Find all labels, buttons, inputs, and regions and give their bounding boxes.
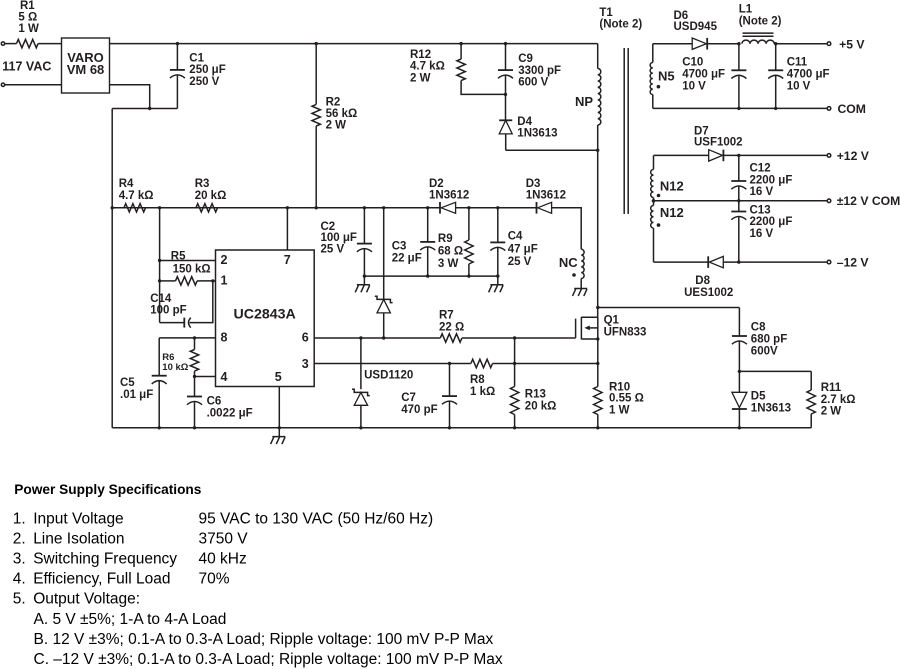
svg-text:R7: R7 — [439, 310, 454, 322]
node pin1 dot — [211, 279, 214, 282]
svg-text:D5: D5 — [751, 391, 766, 403]
svg-text:UC2843A: UC2843A — [234, 307, 296, 323]
winding N12 upper — [651, 155, 684, 200]
node mini rail C3 — [426, 274, 429, 277]
wire COM rail — [653, 107, 827, 109]
node drain snubber junction — [596, 306, 599, 309]
wire — [5, 84, 62, 86]
wire D2 anode to D3 cathode — [456, 207, 537, 209]
wire pin 6 output — [314, 337, 440, 339]
svg-text:20 kΩ: 20 kΩ — [195, 190, 227, 202]
node bottom rail C5 — [158, 426, 161, 429]
svg-text:R1: R1 — [20, 0, 35, 12]
ground pin 5 — [271, 428, 286, 444]
node pin2 junction — [158, 259, 161, 262]
node R6 top — [193, 336, 196, 339]
svg-text:C14: C14 — [150, 293, 172, 305]
svg-text:C10: C10 — [682, 57, 703, 69]
winding NC — [559, 249, 584, 278]
diode D6 — [674, 10, 739, 49]
node switch node junction — [596, 149, 599, 152]
svg-text:2 W: 2 W — [821, 406, 842, 418]
svg-text:Switching Frequency: Switching Frequency — [33, 551, 177, 568]
node N12 upper phase dot — [657, 194, 661, 198]
svg-text:1N3612: 1N3612 — [429, 190, 469, 202]
svg-text:40 kHz: 40 kHz — [199, 551, 247, 568]
wire negative rail left vertical — [111, 109, 113, 428]
svg-text:10 kΩ: 10 kΩ — [162, 362, 188, 373]
svg-text:0.55 Ω: 0.55 Ω — [609, 393, 644, 405]
svg-text:T1: T1 — [599, 7, 613, 19]
svg-text:USF1002: USF1002 — [694, 137, 743, 149]
IC U1 UC2843A — [216, 250, 315, 387]
svg-text:C3: C3 — [392, 241, 407, 253]
svg-text:25 V: 25 V — [321, 243, 345, 255]
capacitor C11 — [768, 44, 829, 109]
wire pin 7 vertical — [286, 208, 288, 250]
node Q1 source junction — [596, 362, 599, 365]
capacitor C2 — [321, 208, 372, 276]
wire VCC mid rail — [112, 207, 440, 209]
svg-text:D8: D8 — [695, 275, 710, 287]
svg-text:70%: 70% — [199, 571, 230, 588]
node C1 top — [176, 42, 179, 45]
node Z1 top — [382, 206, 385, 209]
svg-text:4.7 kΩ: 4.7 kΩ — [410, 61, 445, 73]
node R12 top — [459, 42, 462, 45]
svg-text:C5: C5 — [120, 377, 135, 389]
wire D4 anode to switch node — [506, 149, 598, 151]
wire — [38, 43, 61, 45]
wire pin 2 — [160, 260, 216, 262]
wire pin 5 — [278, 387, 280, 428]
node L1 left — [737, 42, 740, 45]
diode Z1 clamp — [375, 208, 393, 338]
node C4 top — [496, 206, 499, 209]
svg-text:C11: C11 — [787, 57, 808, 69]
wire source to CS — [597, 339, 599, 364]
svg-text:5: 5 — [275, 370, 282, 384]
svg-text:C1: C1 — [189, 52, 204, 64]
svg-text:.01 μF: .01 μF — [120, 389, 153, 401]
node bottom rail USD1120 — [359, 426, 362, 429]
svg-text:3750 V: 3750 V — [199, 530, 249, 547]
svg-text:22 μF: 22 μF — [392, 252, 422, 264]
wire C8 to R11 — [739, 370, 811, 372]
node neg rail / R4 — [111, 206, 114, 209]
svg-text:1.: 1. — [13, 510, 26, 527]
capacitor C12 — [731, 155, 792, 200]
svg-text:10 V: 10 V — [682, 80, 706, 92]
svg-text:C. –12 V ±3%; 0.1-A to 0.3-A L: C. –12 V ±3%; 0.1-A to 0.3-A Load; Rippl… — [34, 651, 503, 668]
wire snubber top — [598, 307, 740, 309]
node bottom rail pin5 — [278, 426, 281, 429]
svg-text:2.: 2. — [13, 530, 26, 547]
node N5 phase dot — [657, 85, 661, 89]
svg-text:R8: R8 — [470, 374, 485, 386]
node Z1 bottom — [382, 336, 385, 339]
transformer core T1 — [624, 48, 628, 214]
svg-text:R4: R4 — [119, 178, 134, 190]
svg-text:20 kΩ: 20 kΩ — [525, 401, 557, 413]
svg-text:R5: R5 — [171, 251, 186, 263]
diode D7 — [694, 126, 827, 162]
node VARO- junction — [148, 107, 151, 110]
diode USD1120 — [352, 338, 413, 428]
svg-text:R12: R12 — [410, 49, 431, 61]
wire VCC ground mini rail — [364, 275, 497, 277]
svg-text:4700 μF: 4700 μF — [682, 68, 725, 80]
node bottom rail R10 — [596, 426, 599, 429]
terminal +/-12V COM — [827, 194, 900, 208]
svg-text:COM: COM — [838, 102, 866, 116]
winding N5 secondary — [650, 44, 674, 109]
resistor R2 — [312, 44, 357, 208]
svg-text:1N3613: 1N3613 — [517, 128, 557, 140]
svg-text:16 V: 16 V — [750, 186, 774, 198]
svg-text:(Note 2): (Note 2) — [739, 15, 782, 27]
svg-text:56 kΩ: 56 kΩ — [326, 108, 358, 120]
node C12 top — [737, 154, 740, 157]
svg-text:USD1120: USD1120 — [364, 370, 413, 382]
node bottom rail C7 — [448, 426, 451, 429]
svg-text:4.7 kΩ: 4.7 kΩ — [119, 190, 154, 202]
svg-text:5.: 5. — [13, 591, 26, 608]
node R12 bottom / C9-D4 junction — [504, 93, 507, 96]
svg-text:.0022 μF: .0022 μF — [207, 408, 253, 420]
terminal +5V — [827, 37, 865, 51]
capacitor C14 — [150, 281, 213, 328]
svg-text:22 Ω: 22 Ω — [439, 322, 464, 334]
node L1 right — [774, 42, 777, 45]
svg-text:R2: R2 — [326, 96, 341, 108]
svg-text:Efficiency, Full Load: Efficiency, Full Load — [33, 571, 170, 588]
wire N12 top to D7 — [654, 154, 709, 156]
resistor R4 — [119, 178, 154, 212]
svg-text:D4: D4 — [517, 116, 532, 128]
resistor R12 — [410, 44, 506, 95]
svg-text:1 W: 1 W — [609, 405, 630, 417]
node D8/C13 junction — [737, 260, 740, 263]
node pin7 feed — [286, 206, 289, 209]
svg-text:117 VAC: 117 VAC — [2, 60, 51, 74]
node R4/R3 junction — [158, 206, 161, 209]
svg-text:16 V: 16 V — [750, 228, 774, 240]
svg-text:2 W: 2 W — [326, 120, 347, 132]
resistor R13 — [510, 364, 556, 428]
resistor R8 — [470, 359, 598, 398]
wire pin 8 — [159, 337, 215, 339]
capacitor C4 — [490, 208, 537, 276]
svg-text:A. 5 V ±5%; 1-A to 4-A Load: A. 5 V ±5%; 1-A to 4-A Load — [34, 611, 227, 628]
svg-text:C6: C6 — [207, 395, 222, 407]
svg-text:UFN833: UFN833 — [604, 326, 647, 338]
svg-text:8: 8 — [221, 330, 228, 344]
transistor Q1 — [576, 315, 647, 340]
svg-text:68 Ω: 68 Ω — [438, 246, 463, 258]
svg-text:R9: R9 — [438, 233, 453, 245]
capacitor C5 — [120, 338, 167, 428]
diode D3 — [526, 178, 566, 214]
node R9 top — [467, 206, 470, 209]
svg-text:2200 μF: 2200 μF — [750, 216, 793, 228]
svg-text:D3: D3 — [526, 178, 541, 190]
resistor R3 — [195, 178, 227, 212]
svg-text:R11: R11 — [821, 382, 842, 394]
svg-text:C13: C13 — [750, 204, 771, 216]
svg-text:3.: 3. — [13, 551, 26, 568]
svg-text:N12: N12 — [660, 205, 684, 220]
svg-text:5 Ω: 5 Ω — [18, 11, 37, 23]
resistor R11 — [807, 371, 856, 427]
svg-text:Output Voltage:: Output Voltage: — [33, 591, 140, 608]
diode D8 — [684, 256, 827, 299]
resistor R7 — [439, 310, 576, 343]
capacitor C1 — [170, 44, 226, 109]
node slope comp junction — [513, 336, 516, 339]
specifications text — [13, 482, 503, 668]
node COM C11 — [774, 107, 777, 110]
svg-text:25 V: 25 V — [508, 256, 532, 268]
wire — [5, 43, 17, 45]
capacitor C8 — [732, 308, 787, 372]
svg-text:600 V: 600 V — [518, 77, 548, 89]
wire pin 3 current sense — [314, 363, 471, 365]
node bottom rail R13 — [513, 426, 516, 429]
node NC phase dot — [572, 273, 576, 277]
capacitor C10 — [682, 44, 746, 109]
svg-text:C4: C4 — [508, 231, 523, 243]
svg-text:C12: C12 — [750, 163, 771, 175]
svg-text:(Note 2): (Note 2) — [599, 19, 642, 31]
svg-text:D7: D7 — [694, 126, 709, 138]
diode D5 — [732, 371, 791, 427]
node R13 top — [513, 362, 516, 365]
wire bottom return rail — [112, 427, 811, 429]
node center tap — [652, 199, 656, 203]
svg-text:+12 V: +12 V — [837, 149, 870, 163]
terminal COM — [827, 102, 866, 116]
svg-text:2.7 kΩ: 2.7 kΩ — [821, 394, 856, 406]
svg-text:470 pF: 470 pF — [401, 404, 437, 416]
node mini rail C2 — [363, 274, 366, 277]
svg-text:±12 V COM: ±12 V COM — [837, 194, 900, 208]
capacitor C13 — [731, 201, 792, 262]
svg-text:NC: NC — [559, 255, 578, 270]
svg-text:47 μF: 47 μF — [508, 243, 538, 255]
node pin1 column junction — [158, 279, 161, 282]
svg-text:C7: C7 — [401, 392, 416, 404]
node C2 top — [363, 206, 366, 209]
svg-text:250 V: 250 V — [189, 76, 219, 88]
node C9 top — [504, 42, 507, 45]
wire pin 4 — [195, 376, 216, 378]
svg-text:L1: L1 — [739, 3, 753, 15]
svg-text:UES1002: UES1002 — [684, 287, 733, 299]
svg-text:N12: N12 — [660, 178, 684, 193]
svg-text:100 μF: 100 μF — [321, 232, 357, 244]
wire N12 bottom to D8 — [654, 261, 709, 263]
svg-text:D2: D2 — [429, 178, 444, 190]
svg-text:150 kΩ: 150 kΩ — [173, 264, 211, 276]
svg-text:6: 6 — [302, 330, 309, 344]
node R2 bottom — [315, 206, 318, 209]
svg-text:10 V: 10 V — [787, 80, 811, 92]
wire N5 top to D6 — [653, 43, 692, 45]
svg-text:1 W: 1 W — [18, 23, 39, 35]
wire NC to ground — [580, 279, 582, 289]
capacitor C7 — [401, 364, 457, 428]
node C7 top — [448, 362, 451, 365]
svg-text:4.: 4. — [13, 571, 26, 588]
node N12 lower phase dot — [657, 223, 661, 227]
svg-text:100 pF: 100 pF — [150, 304, 186, 316]
svg-text:NP: NP — [575, 94, 593, 109]
node C3 top — [426, 206, 429, 209]
svg-text:600V: 600V — [751, 346, 778, 358]
resistor R9 — [438, 208, 473, 276]
svg-text:2200 μF: 2200 μF — [750, 174, 793, 186]
svg-text:Power Supply Specifications: Power Supply Specifications — [14, 482, 201, 497]
svg-text:1N3613: 1N3613 — [751, 403, 791, 415]
svg-text:250 μF: 250 μF — [189, 64, 225, 76]
svg-text:R3: R3 — [195, 178, 210, 190]
svg-text:680 pF: 680 pF — [751, 334, 787, 346]
svg-text:1 kΩ: 1 kΩ — [470, 386, 495, 398]
svg-text:Input Voltage: Input Voltage — [33, 510, 124, 527]
input terminal bottom (117 VAC line 2) — [1, 83, 4, 86]
svg-text:Q1: Q1 — [604, 315, 620, 327]
wire VARO negative output — [110, 85, 150, 109]
terminal +12V — [827, 149, 870, 163]
svg-text:1N3612: 1N3612 — [526, 190, 566, 202]
svg-text:2 W: 2 W — [410, 72, 431, 84]
node pin4 junction — [193, 375, 196, 378]
node mini rail R9 — [467, 274, 470, 277]
svg-text:N5: N5 — [658, 69, 675, 84]
wire feedback column — [159, 208, 161, 323]
ground below C2 — [355, 276, 370, 292]
ground below C4 — [489, 276, 504, 292]
svg-text:4700 μF: 4700 μF — [787, 68, 830, 80]
svg-text:C8: C8 — [751, 322, 766, 334]
input terminal top (117 VAC line 1) — [1, 42, 4, 45]
svg-text:1: 1 — [221, 273, 228, 287]
diode D4 — [499, 116, 557, 150]
node bottom rail D5 — [738, 426, 741, 429]
wire slope comp vertical — [514, 338, 516, 364]
svg-text:C9: C9 — [518, 53, 533, 65]
resistor R5 — [160, 251, 216, 286]
svg-text:95 VAC to 130 VAC (50 Hz/60 H: 95 VAC to 130 VAC (50 Hz/60 Hz) — [199, 510, 434, 527]
svg-text:R13: R13 — [525, 389, 546, 401]
node C12/C13 junction — [737, 199, 740, 202]
resistor R1 — [17, 0, 39, 48]
capacitor C9 — [498, 44, 561, 121]
node C8 bottom junction — [738, 370, 741, 373]
diode D2 — [429, 178, 469, 214]
wire center tap rail — [654, 200, 828, 202]
winding NP primary — [575, 44, 601, 151]
svg-text:+5 V: +5 V — [839, 37, 865, 51]
inductor L1 — [739, 3, 782, 43]
node USD1120 top — [359, 336, 362, 339]
wire drain column — [597, 150, 599, 317]
wire D3 anode to NC winding — [552, 208, 582, 250]
svg-text:7: 7 — [284, 253, 291, 267]
svg-text:Line Isolation: Line Isolation — [33, 530, 124, 547]
transformer T1 label — [599, 7, 642, 31]
node mini rail C4 — [496, 274, 499, 277]
wire HV+ top rail — [110, 43, 598, 45]
node R2 top — [315, 42, 318, 45]
svg-text:–12 V: –12 V — [837, 255, 870, 269]
capacitor C6 — [187, 377, 253, 428]
winding N12 lower — [651, 201, 684, 262]
wire L1 to +5V — [776, 43, 828, 45]
resistor R6 — [162, 338, 198, 377]
capacitor C3 — [392, 208, 436, 276]
terminal -12V — [827, 255, 869, 269]
svg-text:3300 pF: 3300 pF — [518, 65, 561, 77]
wire negative node — [112, 108, 177, 110]
svg-text:3 W: 3 W — [438, 258, 459, 270]
svg-text:VM 68: VM 68 — [67, 62, 105, 77]
bridge rectifier VARO VM 68 — [62, 38, 110, 93]
node COM C10 — [737, 107, 740, 110]
resistor R10 — [594, 364, 644, 428]
ground NC — [573, 289, 588, 297]
svg-text:3: 3 — [302, 357, 309, 371]
svg-text:2: 2 — [221, 253, 228, 267]
svg-text:B. 12 V ±3%; 0.1-A to 0.3-A Lo: B. 12 V ±3%; 0.1-A to 0.3-A Load; Ripple… — [34, 631, 494, 648]
node bottom rail C6 — [193, 426, 196, 429]
svg-text:4: 4 — [221, 370, 228, 384]
node Q1 source tap — [596, 337, 599, 340]
svg-text:USD945: USD945 — [674, 21, 718, 33]
